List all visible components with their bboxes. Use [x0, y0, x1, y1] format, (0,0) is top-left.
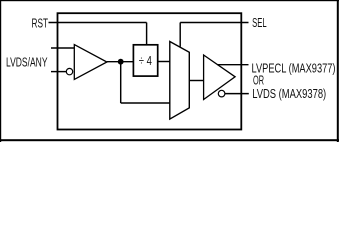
wire input inverting [51, 71, 66, 73]
wire SEL horizontal [180, 22, 248, 24]
outer frame left edge [0, 0, 1, 142]
outer frame top edge [0, 0, 339, 1]
wire mux output to driver [189, 80, 203, 82]
output driver inverting bubble [218, 90, 225, 97]
outer frame right edge [337, 0, 339, 142]
input buffer U1 [74, 45, 107, 80]
svg-text:SEL: SEL [252, 15, 267, 30]
wire RST vertical into divider [146, 23, 148, 45]
junction dot node A [118, 59, 124, 65]
output driver U2 [204, 55, 236, 100]
wire buffer output to divider [107, 61, 133, 63]
svg-text:÷ 4: ÷ 4 [139, 53, 152, 68]
mux [170, 42, 190, 120]
svg-text:LVPECL (MAX9377): LVPECL (MAX9377) [252, 60, 336, 75]
input buffer inverting bubble [66, 68, 72, 74]
wire SEL vertical [179, 23, 181, 47]
wire complement output [225, 93, 249, 95]
wire RST horizontal [49, 22, 147, 24]
svg-text:LVDS/ANY: LVDS/ANY [6, 54, 48, 69]
wire divider output to mux upper input [158, 61, 170, 63]
svg-text:LVDS (MAX9378): LVDS (MAX9378) [252, 86, 326, 101]
wire node A down [120, 62, 122, 103]
divider block div4 [133, 45, 157, 76]
outer frame bottom edge [0, 139, 339, 141]
wire node A to mux lower input [121, 102, 170, 104]
wire input noninverting [51, 47, 74, 49]
IC block outline [58, 13, 242, 129]
wire true output [217, 64, 248, 66]
svg-text:RST: RST [32, 16, 49, 31]
